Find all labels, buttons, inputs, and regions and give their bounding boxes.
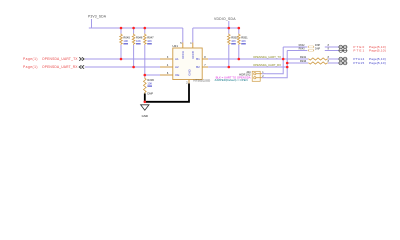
pin 1 J44 [262, 71, 264, 74]
pin 2 J44 [262, 75, 264, 78]
node junction 144.8,75 [144, 74, 147, 77]
svg-text:Page(1): Page(1) [23, 65, 38, 69]
svg-text:10K: 10K [123, 39, 128, 43]
svg-text:OPENSDA_UART_RX: OPENSDA_UART_RX [253, 63, 281, 67]
svg-text:R236: R236 [147, 78, 154, 82]
wire R050 to B line [228, 45, 230, 67]
wire branch vertical V2 [266, 51, 287, 78]
svg-text:B2: B2 [196, 65, 200, 69]
node junction 133.6,28 [132, 27, 135, 30]
svg-text:10K: 10K [241, 39, 246, 43]
resistor R046 10K pull-up [132, 28, 143, 45]
svg-text:PTA15: PTA15 [353, 61, 364, 65]
svg-text:1: 1 [190, 42, 192, 45]
svg-text:10K: 10K [231, 39, 236, 43]
pin numbers right rows [328, 45, 330, 63]
node junction 144.8,28 [144, 27, 147, 30]
svg-text:GND: GND [187, 69, 191, 75]
node junction 144.8,101.8 [144, 101, 147, 104]
svg-text:OPENSDA_UART_TX: OPENSDA_UART_TX [42, 57, 78, 61]
svg-text:10K: 10K [136, 39, 141, 43]
svg-text:DNP: DNP [147, 91, 153, 95]
svg-text:R043: R043 [299, 48, 306, 51]
node PTE0 connector [339, 45, 386, 49]
node PTE1 connector [339, 48, 386, 52]
op-amp U21 NTS0102GD level translator [172, 44, 210, 83]
svg-text:Page(1): Page(1) [23, 57, 38, 61]
resistor R241 series [300, 55, 328, 60]
wire branch vertical V1 [266, 47, 283, 74]
wire R051 to B line [238, 45, 240, 59]
wire P3V3_SDA rail [89, 19, 183, 28]
svg-text:A2: A2 [175, 65, 179, 69]
resistor R047 10K pull-up [144, 28, 155, 45]
svg-text:OPENSDA_UART_TX: OPENSDA_UART_TX [253, 55, 281, 59]
pin 5 VCCA [180, 42, 182, 45]
resistor R042 DNP [299, 44, 321, 48]
svg-text:Page[5,10]: Page[5,10] [369, 48, 386, 52]
node PTA15 connector [339, 61, 386, 65]
svg-text:NTS0102GD: NTS0102GD [194, 78, 211, 82]
resistor R244 series [300, 59, 328, 64]
wire pullup R046 to RX [133, 45, 135, 67]
wire row3 PTA14 [283, 58, 338, 60]
svg-text:VCCA: VCCA [181, 51, 185, 59]
connector J44 HDR1X2 [214, 70, 266, 82]
svg-text:A1: A1 [175, 57, 179, 61]
wire VDDIO_SDA rail [193, 21, 239, 28]
svg-text:VDDIO_SDA: VDDIO_SDA [214, 17, 236, 21]
pin 6 OE [167, 72, 169, 75]
wire B1 net UART_SDA_TX [202, 55, 308, 59]
pin 2 GND [186, 81, 188, 84]
resistor R050 10K pull-up [228, 28, 239, 45]
node junction 121,28 [120, 27, 123, 30]
wire OE net [145, 74, 173, 76]
node junction 238.8,28 [238, 27, 241, 30]
resistor R236 10K DNP [144, 75, 155, 95]
svg-text:P3V3_SDA: P3V3_SDA [88, 14, 107, 18]
svg-text:R244: R244 [300, 59, 307, 63]
wire row2 PTE1 [287, 50, 338, 52]
wire VCCA supply [182, 28, 184, 48]
svg-text:Page[5,10]: Page[5,10] [369, 61, 386, 65]
node P3V3_SDA [88, 14, 107, 18]
node junction 228.8,28 [228, 27, 231, 30]
wire GND thick net [145, 80, 189, 102]
node VDDIO_SDA [214, 17, 236, 21]
svg-text:GND: GND [142, 114, 148, 118]
node OPENSDA_UART_RX off-page [23, 65, 84, 69]
node junction 287.2,67 [286, 66, 289, 69]
node junction 121,59 [120, 58, 123, 61]
wire OPENSDA_UART_TX [85, 58, 173, 60]
node junction 287.2,63 [286, 62, 289, 65]
pin 3 A1 [167, 56, 169, 59]
resistor R051 10K pull-up [238, 28, 249, 45]
pin 7 B2 [204, 64, 206, 67]
node PTA14 connector [339, 57, 386, 61]
ground [141, 105, 149, 118]
svg-text:OE: OE [175, 73, 179, 77]
resistor R043 DNP [299, 48, 321, 52]
svg-text:10K: 10K [147, 81, 152, 85]
wire pullup R047 to OE [144, 45, 146, 75]
node OPENSDA_UART_TX off-page [23, 57, 84, 61]
node junction 133.6,67 [132, 66, 135, 69]
svg-text:OPENSDA_UART_RX: OPENSDA_UART_RX [42, 65, 78, 69]
wire B2 net UART_SDA_RX [202, 63, 287, 67]
wire row1 PTE0 [283, 46, 338, 48]
resistor R045 10K pull-up [120, 28, 131, 45]
svg-text:R241: R241 [300, 55, 307, 59]
svg-text:5: 5 [180, 42, 182, 45]
wire OPENSDA_UART_RX [85, 66, 173, 68]
pin 8 B1 [204, 56, 206, 59]
svg-text:DNP: DNP [315, 48, 321, 51]
svg-text:PTE1: PTE1 [353, 48, 364, 52]
svg-text:JUMPER(Default) = OPEN: JUMPER(Default) = OPEN [214, 78, 247, 82]
wire pullup R045 to TX [120, 45, 122, 59]
pin 4 A2 [167, 64, 169, 67]
svg-text:B1: B1 [196, 57, 200, 61]
svg-text:10K: 10K [147, 39, 152, 43]
svg-text:U21: U21 [172, 44, 178, 48]
wire row4 PTA15 [287, 62, 338, 64]
node junction 238.8,59 [238, 58, 241, 61]
pin 1 VCCB [190, 42, 192, 45]
svg-text:VCCB: VCCB [191, 51, 195, 59]
svg-text:2: 2 [186, 81, 188, 84]
node junction 228.8,67 [228, 66, 231, 69]
node junction 283.2,59 [282, 58, 285, 61]
wire VCCB supply [192, 28, 194, 48]
